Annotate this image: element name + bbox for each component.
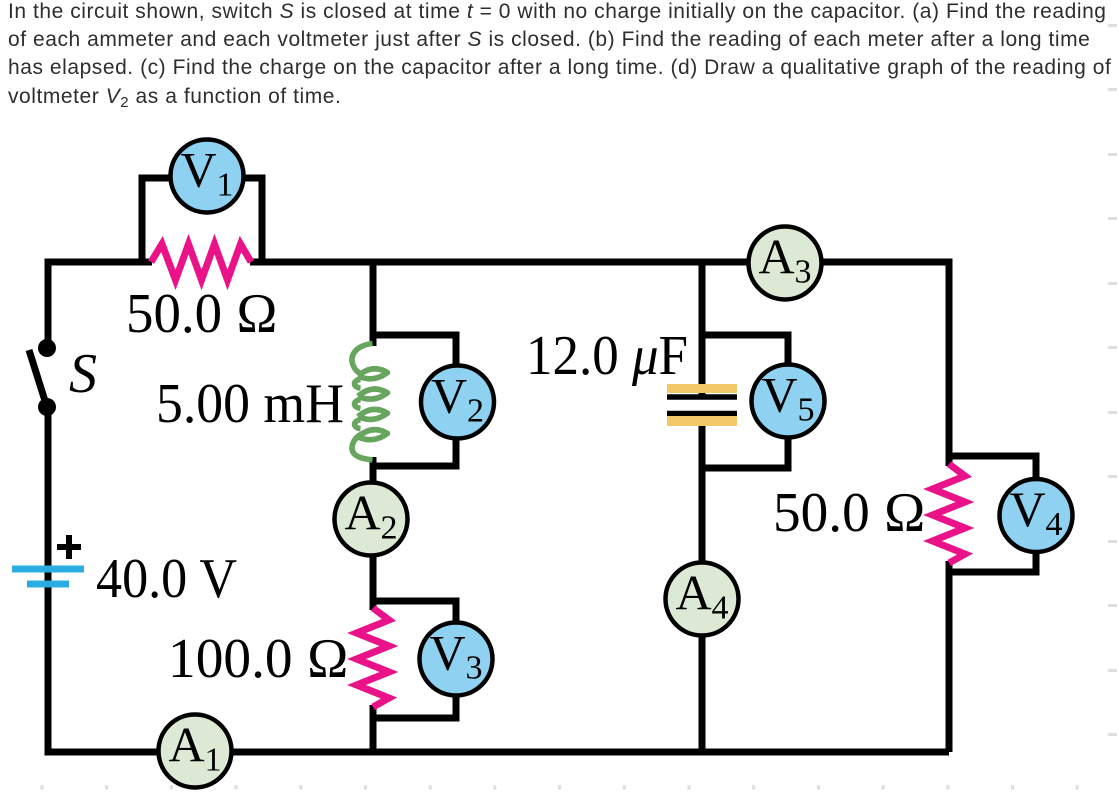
- resistor R2 100.0 ohm (middle): [357, 608, 390, 707]
- capacitor C1 bottom plate: [667, 411, 737, 417]
- voltmeter V2: [421, 366, 494, 439]
- ammeter A2: [335, 483, 408, 556]
- wire V3 top bracket: [373, 601, 456, 624]
- ammeter A3: [749, 227, 822, 300]
- battery short plate: [27, 581, 69, 588]
- capacitor C1 top plate (yellow pad): [667, 384, 737, 393]
- switch S top contact dot: [38, 339, 56, 357]
- wire right vertical lower: [946, 561, 953, 752]
- voltmeter V3: [420, 623, 493, 696]
- grid tick column right: [1108, 24, 1117, 27]
- wire right vertical upper: [946, 259, 953, 467]
- wire V1 right bracket: [242, 178, 262, 262]
- grid tick row bottom: [41, 785, 44, 790]
- wire middle branch lower: [370, 457, 377, 610]
- voltmeter V5: [752, 365, 825, 438]
- capacitor C1 bottom plate (yellow pad): [667, 416, 737, 426]
- svg-text:S: S: [69, 343, 97, 405]
- wire capacitor branch lower: [699, 413, 706, 752]
- wire V4 bottom bracket: [949, 551, 1036, 572]
- wire V2 bottom bracket: [373, 437, 456, 466]
- battery long plate: [12, 566, 84, 573]
- wire V5 top bracket: [702, 335, 788, 366]
- wire V1 left bracket: [142, 178, 172, 262]
- wire left vertical upper: [45, 259, 52, 349]
- voltmeter V4: [1000, 479, 1073, 552]
- battery plus sign: [57, 535, 81, 559]
- wire capacitor branch upper: [699, 259, 706, 395]
- wire middle branch bottom: [370, 705, 377, 752]
- svg-text:50.0 Ω: 50.0 Ω: [126, 283, 278, 345]
- switch S bottom contact dot: [38, 398, 56, 416]
- wire bottom horizontal: [45, 749, 950, 756]
- wire top-left horizontal: [45, 259, 152, 266]
- ammeter A1: [159, 715, 232, 788]
- svg-text:5.00 mH: 5.00 mH: [156, 373, 344, 435]
- wire V4 top bracket: [949, 456, 1036, 481]
- capacitor C1 top plate: [667, 394, 737, 400]
- resistor R1 50.0 ohm (top): [151, 244, 251, 280]
- wire V3 bottom bracket: [373, 694, 456, 718]
- svg-text:50.0 Ω: 50.0 Ω: [773, 482, 926, 544]
- resistor R3 50.0 ohm (right): [933, 464, 966, 563]
- wire left vertical lower: [45, 407, 52, 752]
- svg-text:100.0 Ω: 100.0 Ω: [168, 628, 349, 690]
- svg-text:12.0 μF: 12.0 μF: [526, 325, 688, 387]
- wire V5 bottom bracket: [702, 436, 788, 468]
- svg-text:40.0 V: 40.0 V: [96, 548, 237, 610]
- voltmeter V1: [171, 140, 244, 213]
- wire top main horizontal: [250, 259, 949, 266]
- inductor L1 5.00 mH coil: [352, 344, 388, 460]
- wire V2 top bracket: [373, 335, 456, 367]
- wire middle branch upper: [370, 259, 377, 347]
- ammeter A4: [666, 563, 739, 636]
- switch S blade: [29, 350, 46, 404]
